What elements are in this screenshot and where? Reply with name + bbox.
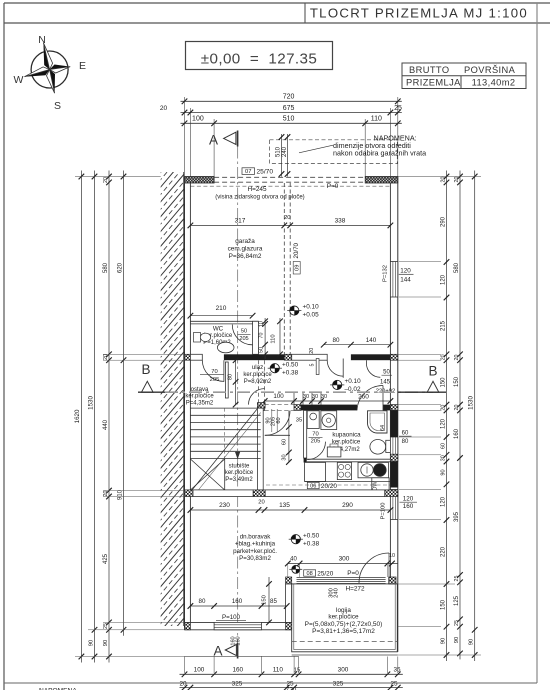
svg-text:50: 50: [259, 347, 265, 353]
svg-text:parket+ker.ploč.: parket+ker.ploč.: [233, 548, 277, 555]
svg-text:+0.50: +0.50: [282, 361, 299, 368]
svg-text:P=36,84m2: P=36,84m2: [229, 253, 262, 260]
svg-text:P=3,81+1,36=5,17m2: P=3,81+1,36=5,17m2: [312, 628, 375, 635]
svg-text:205: 205: [210, 377, 220, 383]
svg-text:580: 580: [454, 262, 460, 273]
svg-text:+0.38: +0.38: [303, 540, 320, 547]
svg-text:P=8,02m2: P=8,02m2: [244, 379, 272, 385]
svg-text:ker.pločice: ker.pločice: [332, 440, 361, 446]
svg-text:25: 25: [454, 620, 460, 626]
svg-text:30: 30: [312, 394, 318, 400]
svg-text:120: 120: [440, 418, 446, 429]
svg-text:113,40m2: 113,40m2: [472, 78, 516, 88]
svg-text:20: 20: [284, 215, 290, 221]
svg-text:440: 440: [103, 419, 109, 430]
svg-text:B: B: [141, 362, 150, 377]
svg-text:240: 240: [282, 146, 288, 157]
svg-text:25: 25: [103, 623, 109, 629]
svg-text:150: 150: [440, 599, 446, 610]
svg-text:+0.10: +0.10: [345, 378, 362, 385]
svg-text:144: 144: [400, 277, 411, 284]
svg-text:40: 40: [290, 557, 297, 563]
svg-text:317: 317: [235, 218, 246, 225]
svg-text:510: 510: [283, 116, 295, 123]
svg-text:20/70: 20/70: [293, 242, 300, 258]
svg-text:P=30,83m2: P=30,83m2: [239, 555, 271, 562]
svg-text:70: 70: [259, 333, 265, 339]
svg-text:P=0: P=0: [347, 570, 359, 577]
svg-text:60: 60: [440, 443, 446, 449]
svg-text:20: 20: [179, 680, 187, 687]
svg-text:25/70: 25/70: [257, 169, 274, 176]
svg-text:N: N: [38, 34, 46, 46]
svg-text:60: 60: [402, 430, 409, 436]
svg-text:135: 135: [279, 502, 290, 509]
svg-text:325: 325: [333, 680, 344, 687]
svg-text:205: 205: [311, 439, 321, 445]
svg-text:80: 80: [199, 598, 206, 605]
svg-text:20/20: 20/20: [321, 483, 337, 490]
svg-text:20: 20: [454, 405, 460, 411]
svg-text:P=0: P=0: [327, 183, 339, 190]
svg-text:425: 425: [103, 553, 109, 564]
svg-text:85: 85: [270, 598, 277, 605]
svg-text:30: 30: [281, 454, 287, 460]
svg-text:125: 125: [454, 595, 460, 606]
svg-text:90: 90: [469, 639, 475, 645]
svg-text:720: 720: [283, 94, 295, 101]
svg-text:10: 10: [389, 553, 395, 559]
svg-text:25: 25: [390, 680, 398, 687]
svg-text:215: 215: [440, 320, 446, 331]
svg-text:395: 395: [454, 511, 460, 522]
svg-text:20: 20: [454, 177, 460, 183]
svg-text:120: 120: [440, 274, 446, 285]
svg-text:70: 70: [312, 431, 318, 437]
svg-text:20: 20: [440, 177, 446, 183]
svg-text:ker.pločice: ker.pločice: [328, 614, 359, 621]
svg-text:07: 07: [245, 169, 251, 175]
svg-text:TLOCRT PRIZEMLJA MJ 1:100: TLOCRT PRIZEMLJA MJ 1:100: [310, 6, 528, 21]
svg-text:20: 20: [309, 348, 315, 354]
svg-text:20: 20: [440, 354, 446, 360]
svg-text:220: 220: [440, 546, 446, 557]
svg-text:5: 5: [310, 364, 316, 367]
svg-text:garaža: garaža: [235, 238, 255, 245]
svg-text:675: 675: [283, 105, 295, 112]
svg-text:cem.glazura: cem.glazura: [228, 245, 263, 252]
svg-text:±0,00 = 127.35: ±0,00 = 127.35: [201, 51, 318, 68]
svg-text:910: 910: [117, 489, 123, 500]
svg-text:ker.pločice: ker.pločice: [225, 470, 254, 476]
svg-text:P=100: P=100: [380, 503, 386, 520]
svg-text:60: 60: [276, 417, 282, 423]
svg-text:ulaz: ulaz: [252, 364, 263, 371]
svg-text:E: E: [79, 60, 86, 72]
svg-text:240: 240: [334, 588, 340, 598]
svg-text:300: 300: [338, 667, 349, 674]
svg-text:H=245: H=245: [247, 186, 266, 193]
svg-text:20: 20: [103, 177, 109, 183]
svg-text:90: 90: [440, 638, 446, 644]
svg-text:230: 230: [219, 502, 230, 509]
svg-text:30: 30: [440, 455, 446, 461]
svg-text:100: 100: [192, 116, 204, 123]
svg-text:W: W: [14, 74, 24, 86]
svg-text:290: 290: [440, 216, 446, 227]
svg-text:145: 145: [380, 379, 391, 385]
svg-text:620: 620: [117, 262, 123, 273]
svg-text:POVRŠINA: POVRŠINA: [464, 65, 516, 75]
svg-text:25: 25: [394, 105, 402, 112]
svg-text:P=3,49m2: P=3,49m2: [225, 477, 253, 483]
svg-text:160: 160: [232, 598, 243, 605]
svg-text:110: 110: [273, 667, 284, 674]
svg-text:140: 140: [366, 337, 377, 344]
svg-text:H=272: H=272: [345, 586, 364, 593]
svg-text:(visina zidarskog otvora od pl: (visina zidarskog otvora od ploče): [215, 194, 304, 200]
svg-text:150: 150: [261, 595, 267, 605]
svg-text:60: 60: [281, 439, 287, 445]
svg-text:150: 150: [454, 376, 460, 387]
svg-text:20: 20: [103, 491, 109, 497]
svg-text:110: 110: [271, 334, 277, 343]
svg-text:325: 325: [232, 680, 243, 687]
svg-text:+0.50: +0.50: [303, 532, 320, 539]
svg-text:+0.38: +0.38: [282, 369, 299, 376]
svg-text:kupaonica: kupaonica: [332, 432, 361, 439]
svg-text:120: 120: [403, 495, 414, 502]
svg-text:100: 100: [273, 393, 284, 400]
svg-text:25: 25: [454, 576, 460, 582]
svg-text:160: 160: [232, 667, 243, 674]
svg-text:80: 80: [402, 439, 409, 445]
svg-text:205: 205: [239, 336, 248, 342]
svg-text:A: A: [209, 133, 218, 148]
svg-text:90: 90: [454, 637, 460, 643]
svg-text:210: 210: [216, 305, 227, 312]
svg-text:338: 338: [335, 218, 346, 225]
svg-text:50: 50: [383, 369, 390, 375]
svg-text:35: 35: [393, 667, 401, 674]
svg-text:160: 160: [454, 428, 460, 439]
svg-text:20: 20: [258, 500, 264, 506]
svg-text:S: S: [54, 100, 61, 112]
svg-text:+blag.+kuhinja: +blag.+kuhinja: [235, 541, 276, 548]
svg-text:20: 20: [440, 405, 446, 411]
svg-text:1530: 1530: [468, 396, 475, 410]
svg-text:dn.boravak: dn.boravak: [240, 534, 272, 541]
svg-text:15: 15: [294, 668, 300, 674]
svg-text:80: 80: [228, 374, 234, 380]
svg-text:B: B: [428, 364, 437, 379]
svg-text:50: 50: [241, 328, 247, 334]
svg-text:20: 20: [103, 354, 109, 360]
svg-text:PRIZEMLJA: PRIZEMLJA: [406, 78, 461, 88]
svg-text:30: 30: [303, 394, 309, 400]
svg-text:80: 80: [332, 337, 340, 344]
svg-text:DW: DW: [372, 481, 378, 491]
svg-text:90: 90: [88, 640, 94, 646]
svg-text:30: 30: [321, 394, 327, 400]
svg-text:720: 720: [286, 687, 297, 690]
svg-text:1620: 1620: [74, 409, 81, 423]
svg-text:ker.pločice: ker.pločice: [243, 372, 272, 378]
svg-text:300: 300: [339, 556, 350, 563]
svg-text:ker.pločice: ker.pločice: [185, 394, 214, 400]
svg-text:stubište: stubište: [229, 463, 250, 469]
svg-text:580: 580: [103, 262, 109, 273]
svg-text:09: 09: [295, 265, 301, 271]
svg-text:+0.05: +0.05: [303, 312, 320, 319]
svg-text:90: 90: [440, 469, 446, 475]
svg-text:08: 08: [306, 571, 312, 577]
svg-text:160: 160: [403, 503, 414, 510]
svg-text:110: 110: [371, 116, 382, 123]
svg-text:25/20: 25/20: [317, 571, 333, 578]
svg-text:BRUTTO: BRUTTO: [409, 65, 449, 75]
svg-text:35: 35: [296, 418, 302, 424]
svg-text:20: 20: [454, 355, 460, 361]
svg-text:120: 120: [440, 496, 446, 507]
svg-text:+0.10: +0.10: [303, 304, 320, 311]
svg-text:nakon odabira garažnih vrata: nakon odabira garažnih vrata: [333, 149, 426, 158]
svg-text:10: 10: [259, 321, 265, 327]
svg-text:290: 290: [342, 502, 353, 509]
svg-text:P=(5,08x0,75)+(2,72x0,50): P=(5,08x0,75)+(2,72x0,50): [305, 621, 383, 628]
svg-text:20: 20: [160, 105, 168, 112]
svg-text:06: 06: [310, 484, 316, 490]
svg-text:510: 510: [276, 146, 282, 157]
svg-text:WC: WC: [213, 325, 224, 332]
svg-text:P=132: P=132: [382, 265, 388, 282]
svg-text:90: 90: [103, 640, 109, 646]
svg-text:150: 150: [440, 377, 446, 388]
svg-text:64: 64: [380, 425, 386, 431]
svg-text:P=4,35m2: P=4,35m2: [186, 400, 214, 406]
svg-text:1530: 1530: [87, 396, 94, 410]
svg-text:120: 120: [400, 267, 411, 274]
svg-text:100: 100: [194, 667, 205, 674]
